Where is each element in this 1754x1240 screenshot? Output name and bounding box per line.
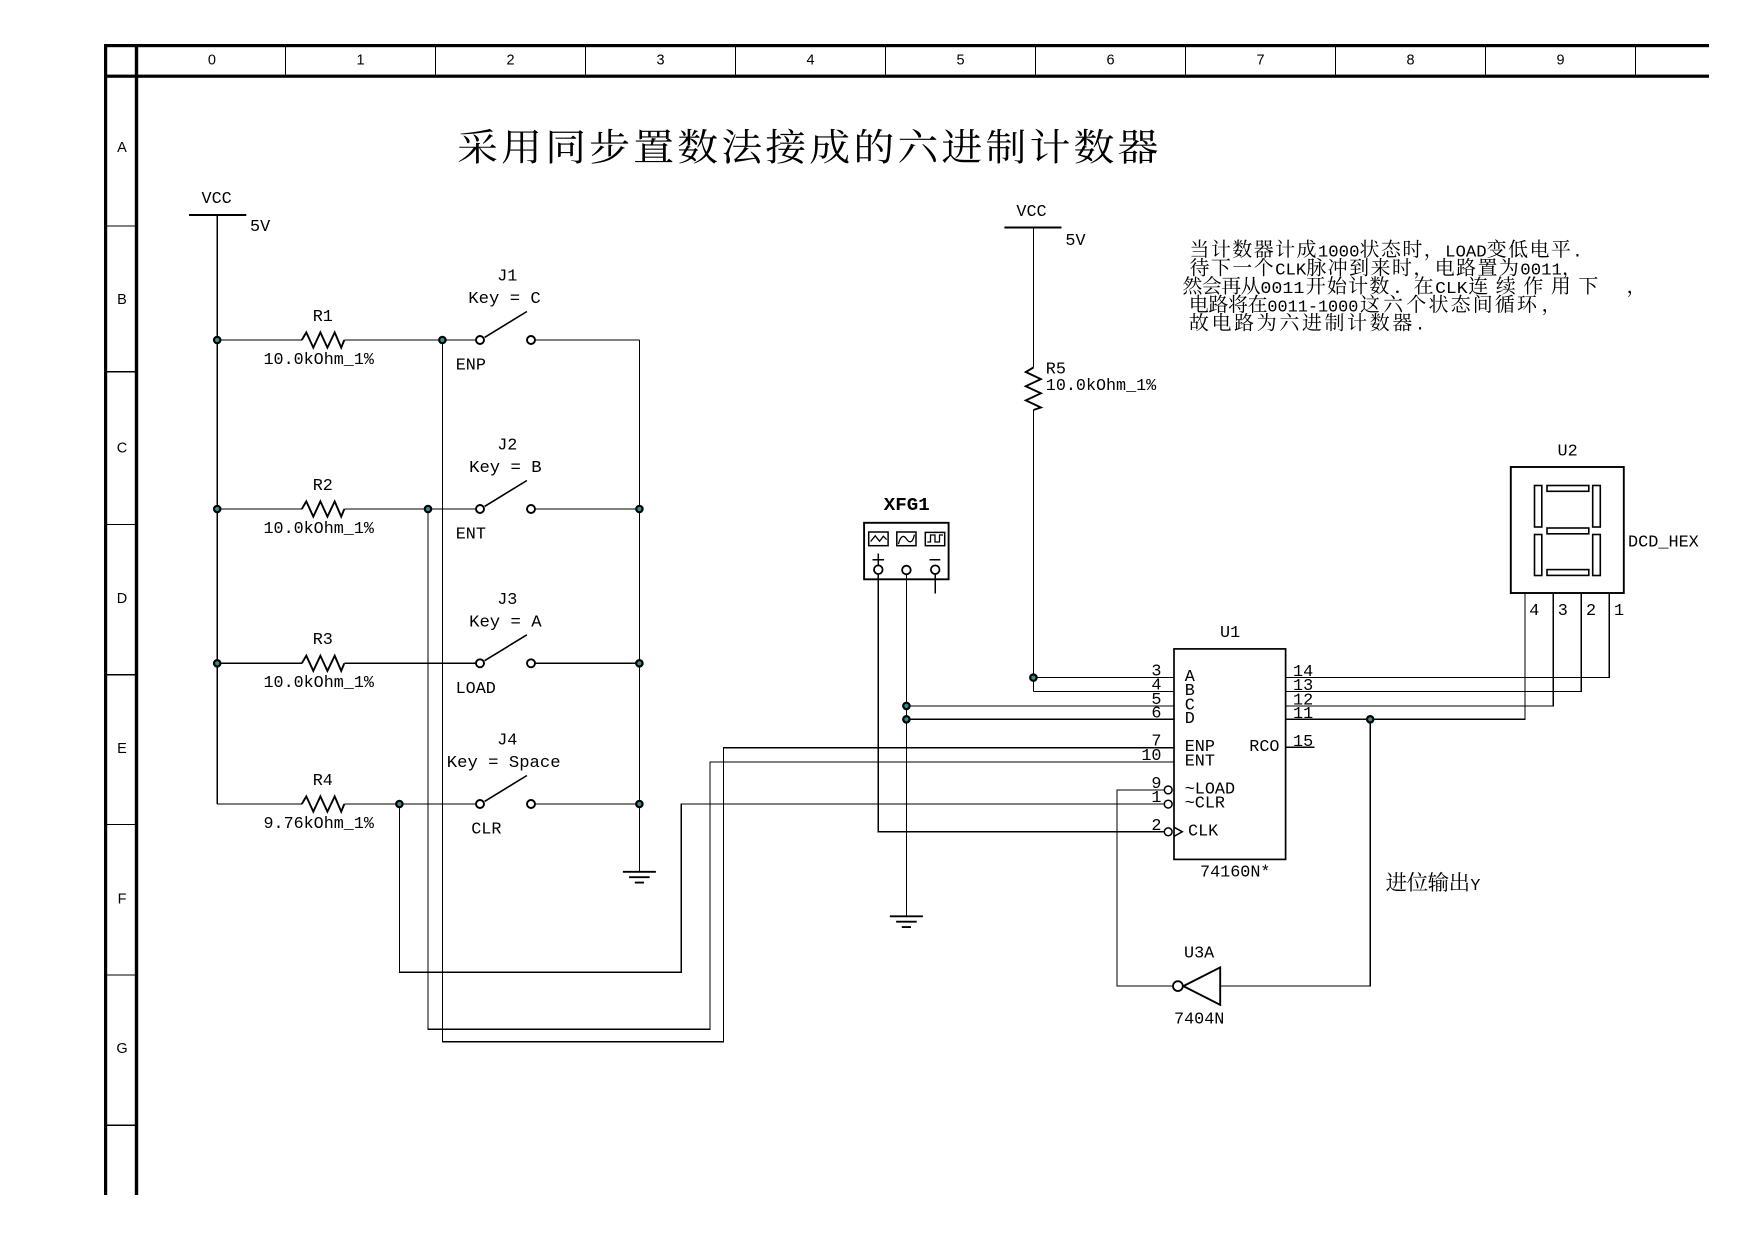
svg-text:6: 6 (1106, 53, 1114, 69)
svg-text:9.76kOhm_1%: 9.76kOhm_1% (264, 815, 375, 834)
svg-text:10: 10 (1141, 747, 1161, 766)
svg-text:5V: 5V (1065, 232, 1085, 251)
svg-text:G: G (116, 1041, 127, 1057)
svg-text:4: 4 (806, 53, 814, 69)
svg-text:Key = Space: Key = Space (447, 754, 561, 773)
svg-text:6: 6 (1151, 704, 1161, 723)
svg-text:U1: U1 (1220, 624, 1240, 643)
svg-text:F: F (118, 892, 127, 908)
svg-text:XFG1: XFG1 (884, 496, 930, 516)
svg-text:10.0kOhm_1%: 10.0kOhm_1% (1046, 377, 1157, 396)
svg-text:J2: J2 (497, 437, 517, 456)
svg-text:15: 15 (1293, 733, 1313, 752)
svg-text:D: D (117, 591, 127, 607)
svg-text:E: E (117, 741, 127, 757)
svg-text:7404N: 7404N (1174, 1010, 1224, 1029)
svg-text:5V: 5V (250, 218, 270, 237)
svg-text:J3: J3 (497, 591, 517, 610)
svg-text:ENT: ENT (456, 526, 486, 545)
svg-text:CLK: CLK (1275, 262, 1307, 281)
svg-text:R4: R4 (313, 772, 333, 791)
svg-text:2: 2 (506, 53, 514, 69)
svg-text:VCC: VCC (1016, 203, 1046, 222)
svg-text:10.0kOhm_1%: 10.0kOhm_1% (264, 520, 375, 539)
svg-text:DCD_HEX: DCD_HEX (1628, 534, 1699, 553)
svg-text:LOAD: LOAD (1445, 243, 1487, 262)
svg-text:VCC: VCC (202, 190, 232, 209)
svg-text:RCO: RCO (1249, 738, 1279, 757)
svg-text:3: 3 (656, 53, 664, 69)
svg-text:ENT: ENT (1185, 752, 1215, 771)
svg-text:J4: J4 (497, 732, 517, 751)
svg-text:CLR: CLR (471, 821, 501, 840)
svg-text:10.0kOhm_1%: 10.0kOhm_1% (264, 351, 375, 370)
svg-text:Y: Y (1470, 877, 1480, 896)
svg-text:Key = A: Key = A (469, 613, 542, 632)
svg-text:3: 3 (1558, 602, 1568, 621)
svg-text:4: 4 (1529, 602, 1539, 621)
svg-text:2: 2 (1586, 602, 1596, 621)
svg-text:CLK: CLK (1188, 822, 1219, 841)
svg-text:10.0kOhm_1%: 10.0kOhm_1% (264, 674, 375, 693)
svg-text:0011-1000: 0011-1000 (1267, 298, 1358, 317)
svg-text:1: 1 (1151, 789, 1161, 808)
svg-text:J1: J1 (497, 268, 517, 287)
svg-text:U2: U2 (1558, 442, 1578, 461)
svg-text:2: 2 (1151, 817, 1161, 836)
svg-text:Key = B: Key = B (469, 459, 541, 478)
svg-text:LOAD: LOAD (456, 680, 496, 699)
svg-text:1: 1 (1614, 602, 1624, 621)
svg-text:Key = C: Key = C (468, 290, 541, 309)
svg-text:11: 11 (1293, 705, 1313, 724)
svg-text:D: D (1185, 710, 1195, 729)
svg-text:B: B (117, 292, 127, 308)
svg-text:~CLR: ~CLR (1185, 795, 1225, 814)
svg-text:8: 8 (1406, 53, 1414, 69)
svg-text:5: 5 (956, 53, 964, 69)
svg-text:C: C (117, 441, 127, 457)
svg-text:A: A (117, 140, 127, 156)
svg-text:1000: 1000 (1318, 243, 1360, 262)
svg-text:ENP: ENP (456, 357, 486, 376)
svg-text:74160N*: 74160N* (1200, 864, 1271, 883)
svg-text:U3A: U3A (1184, 945, 1215, 964)
svg-text:.: . (1572, 243, 1582, 262)
svg-text:0011: 0011 (1260, 280, 1304, 299)
svg-text:R2: R2 (313, 477, 333, 496)
svg-text:9: 9 (1556, 53, 1564, 69)
svg-text:1: 1 (356, 53, 364, 69)
svg-text:R1: R1 (313, 308, 333, 327)
svg-text:R3: R3 (313, 631, 333, 650)
svg-text:CLK: CLK (1435, 280, 1468, 299)
svg-text:0: 0 (208, 53, 216, 69)
svg-text:.: . (1415, 317, 1425, 336)
svg-text:7: 7 (1256, 53, 1264, 69)
